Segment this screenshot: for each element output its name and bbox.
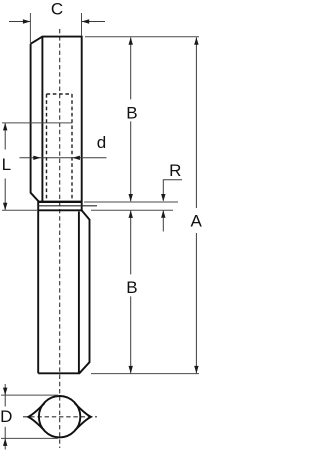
lower barrel top edge	[38, 209, 81, 211]
dimension A line	[195, 37, 197, 373]
dimension R arrow down	[161, 194, 165, 202]
extension line L top	[2, 122, 72, 124]
dimension R leader	[163, 180, 182, 201]
dimension d line	[20, 157, 107, 159]
dimension D upper tail	[4, 384, 6, 407]
dimension C extension line right	[81, 13, 83, 36]
bottom view barrel circle	[39, 396, 80, 437]
svg-text:R: R	[169, 161, 181, 180]
svg-text:d: d	[97, 133, 106, 152]
dimension B lower line	[130, 211, 132, 374]
lower barrel outline	[38, 210, 89, 373]
svg-text:B: B	[126, 103, 137, 122]
centerline horizontal (bottom view)	[23, 416, 97, 418]
dimension B upper arrow top	[129, 37, 133, 45]
dimension C arrow left	[23, 19, 31, 23]
extension line top right	[85, 36, 199, 38]
centerline vertical (side view and bottom view)	[59, 29, 61, 448]
extension line joint upper right	[84, 201, 178, 203]
dimension C line right tail	[82, 21, 105, 23]
bottom view left leaf point	[28, 403, 44, 430]
dimension B lower arrow bottom	[129, 366, 133, 374]
hidden bore line left (dashed)	[46, 94, 48, 202]
dimension D lower tail	[4, 427, 6, 450]
dimension C extension line left	[29, 13, 31, 43]
dimension B lower arrow top	[129, 210, 133, 218]
dimension A arrow bottom	[194, 366, 198, 374]
dimension C line left tail	[9, 21, 30, 23]
washer line in joint	[38, 205, 97, 207]
svg-text:A: A	[191, 212, 203, 231]
extension line joint lower left (L bottom)	[2, 209, 38, 211]
dimension D arrow down	[3, 388, 7, 396]
dimension R arrow up	[161, 210, 165, 218]
hidden bore top edge (dashed)	[47, 93, 73, 95]
dimension R lower tail	[162, 211, 164, 232]
dimension L line	[4, 123, 6, 209]
dimension D extension bottom	[1, 437, 58, 439]
dimension C arrow right	[82, 19, 90, 23]
extension line joint lower right	[91, 209, 173, 211]
upper barrel outline	[31, 37, 82, 374]
dimension A arrow top	[194, 37, 198, 45]
dimension L arrow top	[3, 123, 7, 130]
svg-text:D: D	[0, 407, 12, 426]
dimension B upper arrow bottom	[129, 194, 133, 202]
hidden bore line right (dashed)	[71, 94, 73, 202]
svg-text:L: L	[2, 155, 11, 174]
dimension L arrow bottom	[3, 203, 7, 211]
bottom view right leaf point	[75, 403, 91, 430]
dimension D arrow up	[3, 438, 7, 446]
dimension d arrow right	[72, 156, 80, 160]
dimension D extension top	[1, 394, 58, 396]
svg-text:B: B	[126, 278, 137, 297]
dimension d arrow left	[33, 156, 41, 160]
svg-text:C: C	[51, 0, 63, 19]
dimension B upper line	[130, 37, 132, 201]
extension line bottom right	[91, 373, 199, 375]
upper barrel bottom edge	[38, 201, 82, 203]
